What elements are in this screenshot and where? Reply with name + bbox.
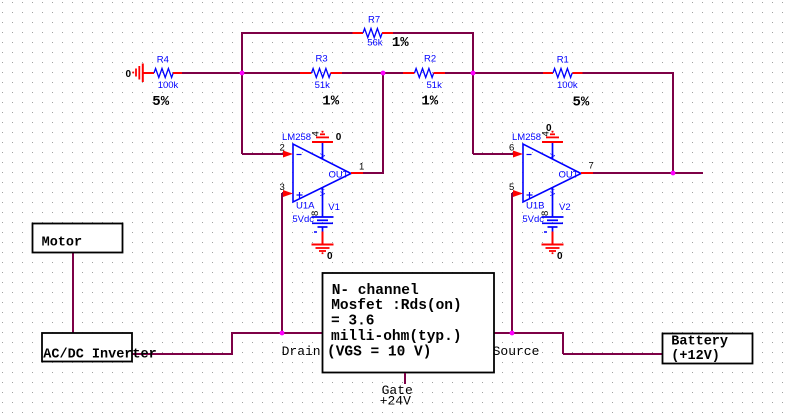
ground 0 at R4 input <box>126 64 143 83</box>
svg-text:R7: R7 <box>368 15 380 26</box>
svg-text:51k: 51k <box>427 80 443 91</box>
svg-text:V+: V+ <box>320 187 327 196</box>
ground 0 above U1A <box>312 131 342 143</box>
svg-text:Motor: Motor <box>42 236 83 251</box>
svg-text:0: 0 <box>336 132 342 143</box>
svg-text:Drain: Drain <box>282 344 321 359</box>
svg-text:V1: V1 <box>328 202 340 213</box>
svg-text:U1A: U1A <box>296 201 315 212</box>
svg-text:3: 3 <box>280 182 285 193</box>
box mosfet note <box>323 273 495 373</box>
svg-text:100k: 100k <box>557 80 578 91</box>
svg-text:5%: 5% <box>573 95 590 111</box>
svg-text:LM258: LM258 <box>282 132 311 143</box>
wire vertical node C <box>472 32 474 154</box>
wire gate stub <box>404 373 406 384</box>
box Battery +12V <box>663 334 753 365</box>
junction node C <box>471 71 476 76</box>
svg-text:Mosfet :Rds(on): Mosfet :Rds(on) <box>331 298 462 314</box>
ground 0 below V2 <box>542 245 564 263</box>
wire inverter to drain lower <box>132 353 232 355</box>
wire U1B output <box>593 172 703 174</box>
resistor R3 <box>300 54 342 110</box>
svg-text:V-: V- <box>320 151 327 158</box>
svg-text:V2: V2 <box>559 202 571 213</box>
svg-text:R4: R4 <box>157 55 169 66</box>
resistor R7 <box>353 15 410 52</box>
junction source <box>510 331 515 336</box>
svg-text:R1: R1 <box>557 55 569 66</box>
svg-text:1%: 1% <box>392 35 409 51</box>
svg-text:4: 4 <box>311 131 322 136</box>
svg-text:1%: 1% <box>421 94 438 110</box>
wire pin3 U1A horizontal <box>282 192 284 194</box>
svg-text:N- channel: N- channel <box>332 283 419 299</box>
wire pin5 U1B vertical <box>511 193 513 334</box>
junction node B <box>381 71 386 76</box>
op-amp U1A <box>280 131 365 217</box>
dc source V1 5Vdc <box>292 202 340 244</box>
resistor R4 <box>143 55 182 111</box>
wire drain to source <box>231 332 563 334</box>
box AC/DC Inverter <box>42 333 157 363</box>
ground 0 above U1B <box>542 123 563 142</box>
ground 0 below V1 <box>312 245 334 263</box>
svg-text:0: 0 <box>126 69 132 80</box>
pin number 8 rotated <box>310 211 321 216</box>
svg-text:V+: V+ <box>550 187 557 196</box>
wire pin5 U1B horizontal <box>512 192 514 194</box>
svg-text:(VGS = 10 V): (VGS = 10 V) <box>327 344 431 360</box>
wire node B vertical <box>382 72 384 174</box>
resistor R2 <box>403 54 445 110</box>
wire R1 corner down <box>672 72 674 173</box>
svg-text:V-: V- <box>550 151 557 158</box>
svg-text:100k: 100k <box>158 80 179 91</box>
wire top feedback R7 right <box>393 32 473 34</box>
svg-text:0: 0 <box>546 123 552 134</box>
pin number 8 rotated <box>540 211 551 216</box>
pin number 4 rotated <box>541 131 552 136</box>
wire motor to inverter <box>72 252 74 334</box>
svg-text:51k: 51k <box>315 80 331 91</box>
wire pin3 U1A vertical <box>281 193 283 334</box>
wire source step down <box>562 332 564 354</box>
svg-text:(+12V): (+12V) <box>671 349 720 364</box>
wire source to battery <box>563 353 663 355</box>
svg-text:5%: 5% <box>152 94 169 110</box>
svg-text:0: 0 <box>557 251 563 262</box>
op-amp U1B <box>509 131 594 217</box>
junction node A <box>240 71 245 76</box>
svg-text:OUT: OUT <box>329 170 349 181</box>
wire rail R4 to R3 <box>182 72 300 74</box>
svg-text:OUT: OUT <box>559 170 579 181</box>
wire rail R2 to R1 <box>445 72 543 74</box>
pin number 4 rotated <box>311 131 322 136</box>
svg-text:7: 7 <box>589 161 594 172</box>
resistor R1 <box>543 55 590 111</box>
dc source V2 5Vdc <box>522 202 570 244</box>
svg-text:LM258: LM258 <box>512 132 541 143</box>
svg-text:5Vdc: 5Vdc <box>292 214 314 225</box>
svg-text:AC/DC Inverter: AC/DC Inverter <box>43 348 156 363</box>
svg-text:Source: Source <box>493 344 540 359</box>
svg-text:2: 2 <box>280 143 285 154</box>
svg-text:milli-ohm(typ.): milli-ohm(typ.) <box>331 329 462 345</box>
wire vertical node A <box>241 32 243 154</box>
wire top feedback R7 left <box>242 32 353 34</box>
svg-text:+24V: +24V <box>380 394 411 409</box>
wire pin2 U1A <box>242 153 284 155</box>
svg-text:R3: R3 <box>316 54 328 65</box>
svg-text:1%: 1% <box>322 94 339 110</box>
wire pin6 U1B <box>473 153 514 155</box>
svg-text:1: 1 <box>359 162 364 173</box>
junction drain <box>280 331 285 336</box>
junction U1B output <box>671 171 676 176</box>
svg-text:Battery: Battery <box>671 335 728 350</box>
wire rail R3 to R2 <box>342 72 403 74</box>
wire R1 to corner <box>583 72 674 74</box>
svg-text:6: 6 <box>509 143 514 154</box>
svg-text:0: 0 <box>327 251 333 262</box>
svg-text:R2: R2 <box>424 54 436 65</box>
wire U1A output <box>363 172 384 174</box>
svg-text:5: 5 <box>509 182 514 193</box>
svg-text:56k: 56k <box>367 37 383 48</box>
svg-text:= 3.6: = 3.6 <box>331 314 375 330</box>
svg-text:U1B: U1B <box>526 201 544 212</box>
box Motor <box>33 224 123 253</box>
svg-text:5Vdc: 5Vdc <box>522 214 544 225</box>
wire drain step up <box>231 333 233 355</box>
